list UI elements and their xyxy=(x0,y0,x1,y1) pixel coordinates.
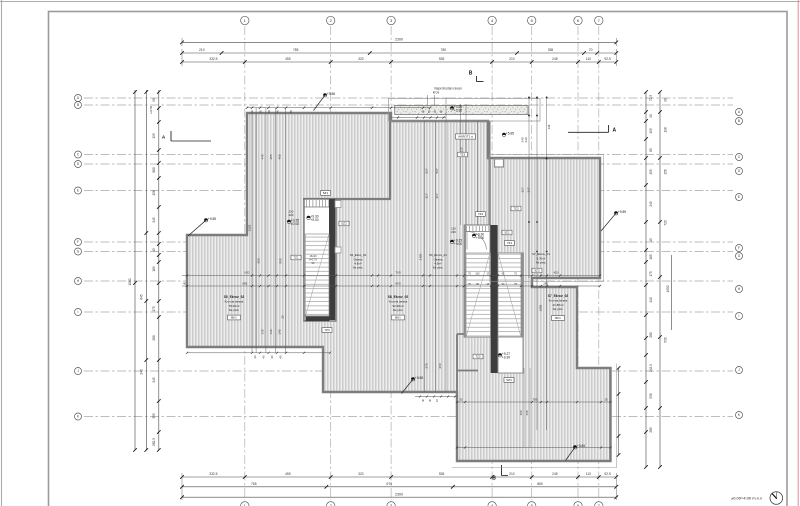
svg-text:±0.00: ±0.00 xyxy=(291,222,299,226)
svg-text:I: I xyxy=(739,314,740,318)
svg-text:+9.00: +9.00 xyxy=(310,218,319,222)
svg-text:AKROT1 a: AKROT1 a xyxy=(458,135,473,139)
svg-text:40: 40 xyxy=(262,355,266,359)
svg-text:25: 25 xyxy=(281,315,285,318)
svg-text:90: 90 xyxy=(289,110,293,114)
svg-text:5Z1: 5Z1 xyxy=(504,231,510,235)
svg-text:280: 280 xyxy=(152,335,156,341)
svg-text:krov: krov xyxy=(433,91,440,95)
svg-text:560: 560 xyxy=(279,258,283,263)
svg-text:B: B xyxy=(469,71,473,77)
svg-text:+5.85: +5.85 xyxy=(506,132,515,136)
svg-text:165: 165 xyxy=(649,254,653,260)
svg-text:+22.50: +22.50 xyxy=(149,105,153,114)
svg-text:410: 410 xyxy=(649,297,653,303)
svg-text:100: 100 xyxy=(475,272,480,275)
svg-text:2300: 2300 xyxy=(395,492,403,496)
svg-text:7Z4: 7Z4 xyxy=(478,212,484,216)
svg-text:BK1: BK1 xyxy=(555,316,561,320)
svg-text:40: 40 xyxy=(267,110,271,114)
svg-text:5Z1: 5Z1 xyxy=(323,191,329,195)
svg-text:460: 460 xyxy=(519,410,523,415)
svg-text:460: 460 xyxy=(278,154,282,159)
svg-text:7Z1: 7Z1 xyxy=(293,256,299,260)
svg-text:317: 317 xyxy=(521,187,525,192)
svg-text:605: 605 xyxy=(242,281,247,285)
svg-text:72.5: 72.5 xyxy=(649,95,653,101)
svg-text:I: I xyxy=(78,310,79,314)
svg-text:45: 45 xyxy=(649,238,653,242)
svg-text:703: 703 xyxy=(395,271,400,275)
svg-text:40: 40 xyxy=(270,355,274,359)
svg-text:h=17.6: h=17.6 xyxy=(309,257,318,261)
svg-text:765: 765 xyxy=(251,482,257,486)
svg-text:+9.30: +9.30 xyxy=(502,355,511,359)
svg-text:332.5: 332.5 xyxy=(209,57,217,61)
svg-text:338: 338 xyxy=(547,124,551,129)
svg-text:7Z3: 7Z3 xyxy=(324,328,330,332)
svg-text:B: B xyxy=(738,119,740,123)
svg-text:455: 455 xyxy=(269,154,273,159)
svg-text:245: 245 xyxy=(152,377,156,383)
svg-text:535: 535 xyxy=(439,472,445,476)
svg-text:Ne prist.: Ne prist. xyxy=(229,308,240,312)
svg-text:240: 240 xyxy=(524,137,528,142)
svg-text:1420: 1420 xyxy=(419,253,423,260)
svg-text:S5_Ekrov_02: S5_Ekrov_02 xyxy=(224,295,245,299)
svg-text:530: 530 xyxy=(649,393,653,399)
svg-text:+9.88: +9.88 xyxy=(415,376,424,380)
svg-text:1060: 1060 xyxy=(128,278,132,285)
svg-text:Ne prist.: Ne prist. xyxy=(553,307,564,311)
svg-text:BK1: BK1 xyxy=(395,316,401,320)
svg-text:670: 670 xyxy=(387,482,393,486)
svg-text:320: 320 xyxy=(358,57,364,61)
svg-text:40: 40 xyxy=(253,355,257,359)
svg-text:65: 65 xyxy=(649,148,653,152)
svg-text:+9.86: +9.86 xyxy=(327,92,336,96)
svg-text:780: 780 xyxy=(441,48,447,52)
svg-text:F: F xyxy=(77,240,79,244)
svg-text:355: 355 xyxy=(548,48,554,52)
svg-text:7Z3: 7Z3 xyxy=(460,153,466,157)
svg-text:210: 210 xyxy=(509,472,515,476)
svg-text:90: 90 xyxy=(664,98,668,102)
svg-text:440: 440 xyxy=(261,154,265,159)
svg-text:7Z2: 7Z2 xyxy=(475,355,481,359)
svg-text:110: 110 xyxy=(586,472,591,476)
svg-text:90: 90 xyxy=(152,98,156,102)
svg-text:355: 355 xyxy=(152,413,156,419)
svg-text:517: 517 xyxy=(425,168,429,173)
svg-text:+9.00: +9.00 xyxy=(476,236,485,240)
svg-text:175: 175 xyxy=(152,306,156,312)
svg-text:663: 663 xyxy=(395,281,400,285)
svg-text:785: 785 xyxy=(293,48,299,52)
svg-text:285: 285 xyxy=(649,427,653,433)
svg-text:282.5: 282.5 xyxy=(152,438,156,446)
svg-text:B: B xyxy=(77,103,79,107)
svg-text:E: E xyxy=(77,189,79,193)
svg-text:195: 195 xyxy=(649,128,653,134)
svg-text:210: 210 xyxy=(509,57,515,61)
svg-text:40: 40 xyxy=(259,110,263,114)
svg-text:B: B xyxy=(492,476,496,482)
svg-text:E: E xyxy=(738,195,740,199)
svg-text:Ne prist.: Ne prist. xyxy=(353,266,364,270)
svg-text:16x30: 16x30 xyxy=(309,254,317,258)
svg-text:2300: 2300 xyxy=(395,38,403,42)
svg-text:+9.85: +9.85 xyxy=(577,444,586,448)
svg-text:195: 195 xyxy=(152,133,156,139)
svg-text:156: 156 xyxy=(152,190,156,196)
svg-text:A: A xyxy=(613,128,617,134)
svg-text:535: 535 xyxy=(439,57,445,61)
svg-text:130: 130 xyxy=(269,329,273,334)
svg-text:156: 156 xyxy=(664,169,668,175)
svg-text:242.5: 242.5 xyxy=(649,364,653,372)
svg-text:40: 40 xyxy=(183,281,187,285)
svg-text:245: 245 xyxy=(152,217,156,223)
svg-text:317: 317 xyxy=(527,187,531,192)
svg-text:660: 660 xyxy=(152,167,156,173)
svg-text:620: 620 xyxy=(244,271,249,275)
svg-text:40: 40 xyxy=(649,114,653,118)
svg-text:245: 245 xyxy=(552,472,558,476)
svg-text:720: 720 xyxy=(664,220,668,226)
svg-text:260: 260 xyxy=(438,363,442,368)
svg-text:1225: 1225 xyxy=(248,224,252,231)
svg-text:455: 455 xyxy=(285,472,291,476)
svg-text:420: 420 xyxy=(553,271,558,275)
svg-text:40: 40 xyxy=(279,355,283,359)
svg-text:F: F xyxy=(738,246,740,250)
svg-text:130: 130 xyxy=(261,329,265,334)
svg-text:530: 530 xyxy=(664,337,668,343)
svg-text:455: 455 xyxy=(285,57,291,61)
svg-text:240: 240 xyxy=(139,369,143,375)
svg-text:5Z2: 5Z2 xyxy=(534,269,540,273)
svg-text:S6_Ekrov_02: S6_Ekrov_02 xyxy=(388,295,409,299)
svg-text:70: 70 xyxy=(589,48,593,52)
svg-text:169: 169 xyxy=(152,266,156,272)
svg-text:280: 280 xyxy=(649,332,653,338)
svg-text:650: 650 xyxy=(257,258,261,263)
svg-text:445: 445 xyxy=(525,410,529,415)
svg-text:175: 175 xyxy=(649,271,653,277)
svg-text:5Z2: 5Z2 xyxy=(341,222,347,226)
svg-text:±0.00=4.00 m.n.v: ±0.00=4.00 m.n.v xyxy=(731,496,762,501)
svg-text:198: 198 xyxy=(664,127,668,133)
svg-text:317: 317 xyxy=(435,193,439,198)
svg-text:+9.89: +9.89 xyxy=(618,210,627,214)
svg-text:5Z3: 5Z3 xyxy=(506,378,512,382)
svg-text:92.5: 92.5 xyxy=(604,57,611,61)
svg-text:BK1: BK1 xyxy=(231,316,237,320)
svg-text:7Z1: 7Z1 xyxy=(507,241,513,245)
svg-text:+9.85: +9.85 xyxy=(208,217,217,221)
svg-text:145: 145 xyxy=(278,329,282,334)
svg-text:285: 285 xyxy=(543,281,548,285)
svg-text:Ne prist.: Ne prist. xyxy=(433,266,444,270)
svg-text:7Z2: 7Z2 xyxy=(513,207,519,211)
svg-text:35: 35 xyxy=(604,398,608,402)
svg-text:320: 320 xyxy=(358,472,364,476)
svg-text:245: 245 xyxy=(649,201,653,207)
svg-text:275: 275 xyxy=(425,363,429,368)
svg-text:220: 220 xyxy=(289,213,294,217)
svg-text:317: 317 xyxy=(425,193,429,198)
svg-text:Ne prist.: Ne prist. xyxy=(536,260,547,264)
svg-text:1950: 1950 xyxy=(666,285,670,292)
svg-text:+9.00: +9.00 xyxy=(454,242,463,246)
svg-text:Ne prist.: Ne prist. xyxy=(393,308,404,312)
svg-text:245: 245 xyxy=(552,57,558,61)
svg-text:210: 210 xyxy=(199,48,205,52)
svg-text:790: 790 xyxy=(532,398,537,402)
svg-text:155: 155 xyxy=(649,169,653,175)
svg-text:645: 645 xyxy=(139,294,143,300)
svg-text:35: 35 xyxy=(459,398,463,402)
svg-text:220: 220 xyxy=(451,230,456,234)
svg-text:860: 860 xyxy=(537,482,543,486)
svg-text:S7_Ekrov_02: S7_Ekrov_02 xyxy=(548,294,569,298)
svg-text:92.5: 92.5 xyxy=(604,472,611,476)
svg-text:537: 537 xyxy=(435,168,439,173)
svg-text:45: 45 xyxy=(152,248,156,252)
svg-text:110: 110 xyxy=(586,57,591,61)
svg-text:+3.90: +3.90 xyxy=(454,108,463,112)
svg-text:40: 40 xyxy=(276,110,280,114)
svg-text:40: 40 xyxy=(250,110,254,114)
svg-text:332.5: 332.5 xyxy=(209,472,217,476)
svg-text:1985: 1985 xyxy=(539,304,543,311)
